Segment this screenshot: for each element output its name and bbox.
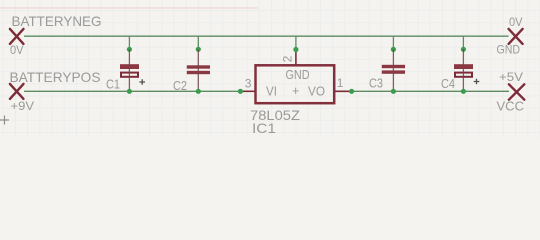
supply symbol BATTERYPOS (bottom-left X) [10,84,24,99]
plus mark C1 [139,79,145,85]
net VCC bottom-right wire [352,90,509,92]
svg-text:C4: C4 [441,77,455,91]
node junction C4 top [461,47,466,52]
node junction pin3 [238,89,243,94]
node junction C3 top [391,47,396,52]
svg-text:1: 1 [337,76,344,90]
node junction C2 bottom [196,89,201,94]
svg-text:BATTERYNEG: BATTERYNEG [12,14,102,29]
svg-text:0V: 0V [10,43,24,57]
capacitor C4 (polarized) [441,36,479,94]
origin marker [0,116,9,125]
node junction C1 bottom [127,89,132,94]
svg-text:+5V: +5V [499,70,524,84]
svg-text:C3: C3 [369,77,383,91]
svg-text:GND: GND [497,43,521,57]
wire C2 top [197,36,199,49]
wire C3 top [392,36,394,49]
node junction C4 bottom [461,89,466,94]
svg-text:+9V: +9V [11,99,35,113]
capacitor C1 (polarized) [106,36,145,94]
svg-text:VCC: VCC [497,100,525,114]
plus mark C4 [474,79,480,85]
node junction pin2 [293,47,298,52]
voltage regulator IC1 78L05Z [238,36,354,136]
node junction C1 top [127,47,132,52]
svg-text:2: 2 [281,55,295,62]
svg-text:VO: VO [308,85,325,99]
supply symbol GND (top-right X) [509,29,523,44]
svg-text:C2: C2 [173,79,187,93]
capacitor C3 [369,36,405,94]
svg-text:C1: C1 [106,78,120,92]
svg-text:IC1: IC1 [252,121,276,136]
IC body [256,65,335,103]
wire pin2 to rail [295,36,297,49]
node junction pin1 [349,89,354,94]
svg-text:VI: VI [266,85,277,99]
pin C3 [382,65,405,68]
pin 2 wire (GND, top) [295,50,297,66]
net GND top rail wire [24,35,509,37]
net BATTERYPOS bottom-left wire [24,90,240,92]
supply symbol BATTERYNEG (top-left X) [10,29,24,44]
node junction C2 top [196,47,201,52]
node junction C3 bottom [391,89,396,94]
pin C4 [454,64,473,69]
pin 1 wire [335,90,352,92]
svg-text:3: 3 [245,77,252,91]
svg-text:BATTERYPOS: BATTERYPOS [10,70,101,85]
wire C4 top [462,36,464,49]
wire C1 top [128,36,130,49]
svg-text:+: + [292,84,299,98]
supply symbol VCC (bottom-right X) [509,84,524,99]
svg-text:GND: GND [286,68,310,82]
svg-text:0V: 0V [509,15,523,29]
pin C1 [120,64,139,69]
capacitor C2 [173,36,210,94]
pin C2 [187,65,210,68]
pin 3 wire [240,90,255,92]
faint pink line [0,7,258,9]
